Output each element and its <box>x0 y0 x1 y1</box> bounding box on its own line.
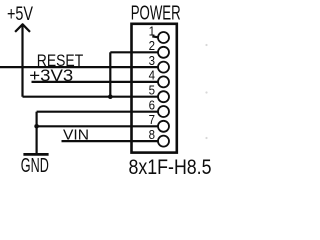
svg-text:2: 2 <box>149 38 155 53</box>
svg-text:5: 5 <box>149 83 155 98</box>
svg-text:POWER: POWER <box>131 3 181 25</box>
svg-text:GND: GND <box>21 154 49 177</box>
svg-text:7: 7 <box>149 112 155 127</box>
svg-text:+5V: +5V <box>7 3 34 25</box>
svg-text:+3V3: +3V3 <box>29 67 73 85</box>
svg-text:6: 6 <box>149 97 155 112</box>
svg-text:3: 3 <box>149 53 155 68</box>
svg-text:8x1F-H8.5: 8x1F-H8.5 <box>129 156 212 177</box>
svg-text:1: 1 <box>149 23 155 38</box>
svg-text:8: 8 <box>149 127 155 142</box>
svg-text:4: 4 <box>149 68 155 83</box>
svg-text:VIN: VIN <box>63 127 89 144</box>
